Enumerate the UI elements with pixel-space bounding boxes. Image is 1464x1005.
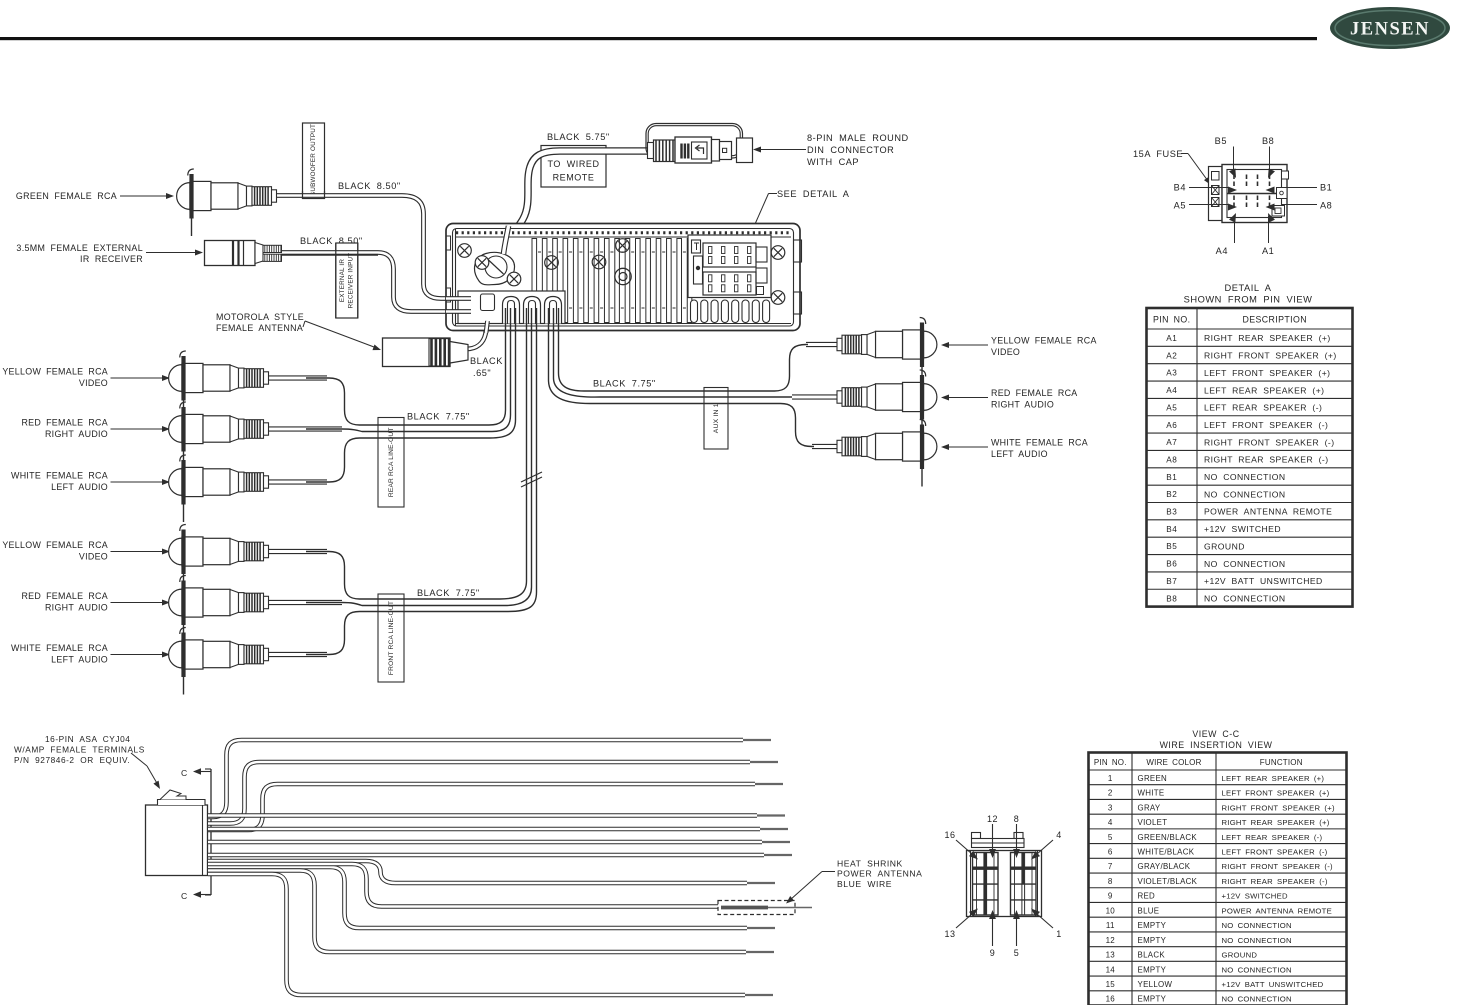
harness wire 3 (up) <box>208 784 755 830</box>
svg-text:8: 8 <box>1108 877 1113 886</box>
svg-text:WHITE FEMALE RCA: WHITE FEMALE RCA <box>11 643 108 653</box>
harness wire 12 (down) <box>208 874 745 995</box>
svg-text:LEFT FRONT SPEAKER (-): LEFT FRONT SPEAKER (-) <box>1204 420 1328 430</box>
pin arrows <box>1229 168 1236 178</box>
svg-text:NO CONNECTION: NO CONNECTION <box>1204 489 1286 499</box>
svg-text:RED: RED <box>1138 892 1156 901</box>
connector yellow female rca (video) <box>169 525 269 592</box>
leader to green RCA <box>120 195 168 197</box>
heat sink fins <box>532 239 537 323</box>
wire: remote cable inside chassis <box>504 226 509 254</box>
svg-text:3: 3 <box>1108 803 1113 812</box>
wire: antenna cable <box>466 322 487 349</box>
svg-text:2: 2 <box>1108 789 1113 798</box>
harness wire 5 <box>208 827 760 832</box>
svg-text:12: 12 <box>987 814 998 824</box>
leader to yellow female rca <box>111 377 165 379</box>
svg-text:WHITE: WHITE <box>1138 789 1165 798</box>
wire: aux red <box>792 394 838 399</box>
connector aux red female rca <box>837 370 937 437</box>
leader from aux label <box>947 446 988 448</box>
svg-text:16-PIN ASA CYJ04: 16-PIN ASA CYJ04 <box>45 734 130 744</box>
connector aux yellow female rca <box>837 318 937 385</box>
svg-text:RIGHT REAR SPEAKER (+): RIGHT REAR SPEAKER (+) <box>1222 818 1330 827</box>
svg-text:BLACK 7.75": BLACK 7.75" <box>407 412 470 422</box>
svg-text:WHITE FEMALE RCA: WHITE FEMALE RCA <box>991 438 1088 448</box>
svg-text:RED FEMALE RCA: RED FEMALE RCA <box>991 388 1078 398</box>
svg-text:LEFT FRONT SPEAKER (+): LEFT FRONT SPEAKER (+) <box>1204 368 1331 378</box>
harness wire 1 (up) <box>208 740 743 817</box>
svg-text:B5: B5 <box>1166 542 1177 551</box>
svg-text:16: 16 <box>1106 995 1116 1004</box>
svg-text:LEFT FRONT SPEAKER (+): LEFT FRONT SPEAKER (+) <box>1222 789 1330 798</box>
wire: front RCA red <box>268 600 342 605</box>
pigtail connector block <box>458 291 565 324</box>
leader to detail A connector <box>769 193 778 195</box>
leader from aux label <box>947 344 988 346</box>
svg-text:RIGHT REAR SPEAKER (-): RIGHT REAR SPEAKER (-) <box>1204 455 1329 465</box>
harness wire 10 (down) <box>208 867 747 928</box>
svg-text:+12V BATT UNSWITCHED: +12V BATT UNSWITCHED <box>1204 576 1323 586</box>
svg-text:POWER ANTENNA: POWER ANTENNA <box>837 869 922 879</box>
wire stubs into pigtail block <box>446 296 471 301</box>
svg-text:FUNCTION: FUNCTION <box>1260 758 1303 767</box>
svg-text:A1: A1 <box>1262 246 1274 256</box>
head unit cable clamp oval <box>475 252 515 284</box>
rear slot row <box>691 300 698 323</box>
connector: 8-pin male round DIN with cap strap <box>646 124 743 159</box>
wire: aux yellow <box>806 342 838 347</box>
svg-text:VIOLET: VIOLET <box>1138 818 1168 827</box>
svg-text:WIRE COLOR: WIRE COLOR <box>1146 758 1201 767</box>
wire: rear RCA red <box>268 426 342 431</box>
svg-text:BLACK 7.75": BLACK 7.75" <box>593 379 656 389</box>
svg-text:.65": .65" <box>473 368 491 378</box>
connector red female rca (right audio) <box>169 402 269 469</box>
subwoofer output tag <box>303 123 325 199</box>
svg-text:RIGHT REAR SPEAKER (-): RIGHT REAR SPEAKER (-) <box>1222 877 1328 886</box>
svg-text:7: 7 <box>1108 862 1113 871</box>
connector: Motorola style female antenna <box>383 338 451 367</box>
detail A pins <box>1233 175 1235 180</box>
svg-text:EMPTY: EMPTY <box>1138 995 1167 1004</box>
external IR receiver input tag <box>336 243 358 318</box>
svg-text:RIGHT FRONT SPEAKER (+): RIGHT FRONT SPEAKER (+) <box>1204 351 1337 361</box>
svg-text:+12V SWITCHED: +12V SWITCHED <box>1204 524 1281 534</box>
svg-text:VIOLET/BLACK: VIOLET/BLACK <box>1138 877 1198 886</box>
svg-text:4: 4 <box>1056 830 1062 840</box>
harness wire 6 <box>208 840 762 845</box>
head unit chassis <box>446 224 800 331</box>
svg-text:A5: A5 <box>1166 403 1177 412</box>
svg-text:VIDEO: VIDEO <box>79 552 108 562</box>
VIEW C-C table <box>1089 753 1347 1005</box>
svg-text:WHITE/BLACK: WHITE/BLACK <box>1138 848 1195 857</box>
detail A latch <box>1277 188 1288 199</box>
leader to white female rca <box>111 654 165 656</box>
svg-text:B3: B3 <box>1166 508 1177 517</box>
pin grid at 1010.5 <box>1011 853 1037 916</box>
leader heat shrink <box>822 871 835 873</box>
svg-text:3.5MM FEMALE EXTERNAL: 3.5MM FEMALE EXTERNAL <box>16 243 143 253</box>
svg-text:BLACK: BLACK <box>470 356 503 366</box>
connector red female rca (right audio) <box>169 576 269 643</box>
head unit right mounting ear <box>794 240 802 262</box>
connector white female rca (left audio) <box>169 628 269 695</box>
detail A upper pin grid <box>703 243 756 267</box>
svg-text:BLACK 7.75": BLACK 7.75" <box>417 588 480 598</box>
leader to 16-pin connector <box>131 753 147 766</box>
svg-text:GREEN FEMALE RCA: GREEN FEMALE RCA <box>16 191 117 201</box>
leader to yellow female rca <box>111 551 165 553</box>
connector aux white female rca <box>837 420 937 487</box>
svg-text:EMPTY: EMPTY <box>1138 921 1167 930</box>
svg-text:MOTOROLA STYLE: MOTOROLA STYLE <box>216 312 304 322</box>
svg-text:RED FEMALE RCA: RED FEMALE RCA <box>21 591 108 601</box>
svg-text:YELLOW FEMALE RCA: YELLOW FEMALE RCA <box>2 540 108 550</box>
svg-text:NO CONNECTION: NO CONNECTION <box>1204 593 1286 603</box>
svg-text:B2: B2 <box>1166 490 1177 499</box>
svg-text:+12V BATT UNSWITCHED: +12V BATT UNSWITCHED <box>1222 980 1324 989</box>
svg-text:A8: A8 <box>1320 201 1332 211</box>
svg-text:A4: A4 <box>1216 246 1228 256</box>
svg-text:RIGHT FRONT SPEAKER (+): RIGHT FRONT SPEAKER (+) <box>1222 803 1335 812</box>
wire: rear RCA yellow <box>268 375 327 380</box>
heavy pin bar <box>984 853 987 916</box>
leader to IR receiver <box>146 252 196 254</box>
svg-text:8-PIN MALE ROUND: 8-PIN MALE ROUND <box>807 133 909 143</box>
svg-text:BLACK 5.75": BLACK 5.75" <box>547 132 610 142</box>
svg-text:B6: B6 <box>1166 560 1177 569</box>
connector: green female RCA <box>177 169 277 236</box>
TO WIRED REMOTE box <box>541 146 606 188</box>
svg-text:SHOWN FROM PIN VIEW: SHOWN FROM PIN VIEW <box>1184 295 1313 305</box>
svg-text:9: 9 <box>990 948 996 958</box>
insertion view connector top tab <box>972 833 981 839</box>
svg-text:EMPTY: EMPTY <box>1138 965 1167 974</box>
wire: aux white <box>812 444 838 449</box>
rear RCA line-out tag <box>378 418 404 508</box>
harness wire 8 (down) <box>208 861 747 883</box>
svg-text:YELLOW FEMALE RCA: YELLOW FEMALE RCA <box>2 367 108 377</box>
svg-text:NO CONNECTION: NO CONNECTION <box>1204 559 1286 569</box>
svg-text:RIGHT AUDIO: RIGHT AUDIO <box>45 429 108 439</box>
svg-text:15: 15 <box>1106 980 1116 989</box>
svg-text:GROUND: GROUND <box>1222 951 1258 960</box>
svg-text:RIGHT AUDIO: RIGHT AUDIO <box>991 400 1054 410</box>
svg-text:DETAIL A: DETAIL A <box>1225 283 1272 293</box>
detail A connector body <box>1209 167 1223 221</box>
svg-text:LEFT REAR SPEAKER (-): LEFT REAR SPEAKER (-) <box>1204 403 1322 413</box>
svg-text:POWER ANTENNA REMOTE: POWER ANTENNA REMOTE <box>1222 906 1332 915</box>
svg-text:AUX IN 1: AUX IN 1 <box>713 403 720 433</box>
svg-text:8: 8 <box>1014 814 1020 824</box>
svg-text:RIGHT AUDIO: RIGHT AUDIO <box>45 603 108 613</box>
svg-text:11: 11 <box>1106 921 1115 930</box>
svg-text:LEFT AUDIO: LEFT AUDIO <box>51 482 108 492</box>
svg-text:NO CONNECTION: NO CONNECTION <box>1222 965 1292 974</box>
svg-text:NO CONNECTION: NO CONNECTION <box>1222 936 1292 945</box>
svg-text:YELLOW: YELLOW <box>1138 980 1173 989</box>
svg-text:RECEIVER INPUT: RECEIVER INPUT <box>348 253 355 309</box>
svg-text:A6: A6 <box>1166 421 1177 430</box>
svg-text:GRAY/BLACK: GRAY/BLACK <box>1138 862 1191 871</box>
svg-text:BLUE WIRE: BLUE WIRE <box>837 879 892 889</box>
svg-text:SEE DETAIL A: SEE DETAIL A <box>777 189 850 199</box>
svg-text:POWER ANTENNA REMOTE: POWER ANTENNA REMOTE <box>1204 507 1332 517</box>
harness wire 11 (down) <box>208 871 746 953</box>
svg-text:B8: B8 <box>1166 594 1177 603</box>
svg-text:YELLOW FEMALE RCA: YELLOW FEMALE RCA <box>991 336 1097 346</box>
svg-text:B4: B4 <box>1174 183 1186 193</box>
svg-text:9: 9 <box>1108 892 1113 901</box>
svg-text:A2: A2 <box>1166 351 1177 360</box>
svg-text:12: 12 <box>1106 936 1116 945</box>
svg-text:15A FUSE: 15A FUSE <box>1133 149 1183 159</box>
svg-text:RIGHT REAR SPEAKER (+): RIGHT REAR SPEAKER (+) <box>1204 333 1331 343</box>
wire: rear RCA white <box>268 479 327 484</box>
16-pin connector block <box>146 805 208 876</box>
svg-text:TO WIRED: TO WIRED <box>547 159 599 169</box>
svg-text:16: 16 <box>944 830 955 840</box>
svg-text:WHITE FEMALE RCA: WHITE FEMALE RCA <box>11 471 108 481</box>
svg-text:13: 13 <box>1106 951 1116 960</box>
svg-text:B7: B7 <box>1166 577 1177 586</box>
head unit screws <box>458 244 472 258</box>
svg-text:VIDEO: VIDEO <box>79 378 108 388</box>
connector yellow female rca (video) <box>169 351 269 418</box>
harness wire 9: heat shrink blue wire <box>208 864 718 907</box>
head unit left bracket <box>455 229 457 327</box>
svg-text:5: 5 <box>1108 833 1113 842</box>
svg-text:5: 5 <box>1014 948 1020 958</box>
svg-text:IR RECEIVER: IR RECEIVER <box>80 254 143 264</box>
svg-text:PIN NO.: PIN NO. <box>1094 758 1127 767</box>
svg-text:LEFT FRONT SPEAKER (-): LEFT FRONT SPEAKER (-) <box>1222 848 1328 857</box>
fin dashes <box>538 251 688 253</box>
svg-text:GREEN: GREEN <box>1138 774 1168 783</box>
svg-text:BLACK 8.50": BLACK 8.50" <box>338 181 401 191</box>
svg-text:DIN CONNECTOR: DIN CONNECTOR <box>807 145 894 155</box>
wire: IR receiver cable to head unit <box>281 253 460 312</box>
svg-text:EMPTY: EMPTY <box>1138 936 1167 945</box>
cable break mark <box>521 472 542 482</box>
svg-text:6: 6 <box>1108 848 1113 857</box>
svg-text:GROUND: GROUND <box>1204 541 1245 551</box>
leader to red female rca <box>111 602 165 604</box>
svg-text:A7: A7 <box>1166 438 1177 447</box>
svg-text:A4: A4 <box>1166 386 1177 395</box>
svg-text:B8: B8 <box>1262 136 1274 146</box>
wire: front RCA white <box>268 652 327 657</box>
svg-text:+12V SWITCHED: +12V SWITCHED <box>1222 892 1288 901</box>
svg-text:VIDEO: VIDEO <box>991 347 1020 357</box>
svg-text:A3: A3 <box>1166 369 1177 378</box>
svg-text:B1: B1 <box>1320 183 1332 193</box>
rear connector block (Detail A location) <box>688 235 771 298</box>
front RCA line-out tag <box>378 594 404 682</box>
svg-text:LEFT AUDIO: LEFT AUDIO <box>51 655 108 665</box>
svg-text:1: 1 <box>1108 774 1113 783</box>
pigtails <box>503 297 520 324</box>
svg-text:LEFT AUDIO: LEFT AUDIO <box>991 449 1048 459</box>
svg-text:B4: B4 <box>1166 525 1177 534</box>
leader to antenna <box>303 321 305 327</box>
svg-text:RIGHT FRONT SPEAKER (-): RIGHT FRONT SPEAKER (-) <box>1204 437 1335 447</box>
leader to DIN connector <box>759 149 806 151</box>
svg-text:A8: A8 <box>1166 455 1177 464</box>
svg-text:BLUE: BLUE <box>1138 906 1160 915</box>
svg-text:B1: B1 <box>1166 473 1177 482</box>
wire: remote cable into head unit <box>506 151 653 256</box>
svg-text:RED FEMALE RCA: RED FEMALE RCA <box>21 418 108 428</box>
leader to white female rca <box>111 481 165 483</box>
connector white female rca (left audio) <box>169 455 269 522</box>
leader to red female rca <box>111 428 165 430</box>
insertion view connector body <box>967 851 1042 917</box>
svg-text:4: 4 <box>1108 818 1113 827</box>
svg-text:PIN NO.: PIN NO. <box>1153 315 1191 325</box>
svg-text:B5: B5 <box>1215 136 1227 146</box>
svg-text:HEAT SHRINK: HEAT SHRINK <box>837 859 903 869</box>
svg-text:C: C <box>181 891 188 901</box>
svg-text:WIRE INSERTION VIEW: WIRE INSERTION VIEW <box>1160 740 1273 750</box>
wire: subwoofer cable to head unit <box>276 196 460 299</box>
harness wire 7 <box>208 853 764 858</box>
svg-text:LEFT REAR SPEAKER (+): LEFT REAR SPEAKER (+) <box>1204 385 1324 395</box>
harness wire 2 (up) <box>208 762 750 824</box>
DETAIL A table <box>1147 308 1353 607</box>
pin grid at 972.5 <box>973 853 999 916</box>
svg-text:DESCRIPTION: DESCRIPTION <box>1242 315 1307 325</box>
svg-text:NO CONNECTION: NO CONNECTION <box>1222 921 1292 930</box>
section line C-C <box>210 769 212 895</box>
svg-text:W/AMP FEMALE TERMINALS: W/AMP FEMALE TERMINALS <box>14 745 145 755</box>
svg-text:C: C <box>181 768 188 778</box>
svg-text:14: 14 <box>1106 965 1116 974</box>
svg-text:NO CONNECTION: NO CONNECTION <box>1222 995 1292 1004</box>
svg-text:LEFT REAR SPEAKER (+): LEFT REAR SPEAKER (+) <box>1222 774 1325 783</box>
JENSEN logo <box>1330 7 1450 49</box>
svg-text:GREEN/BLACK: GREEN/BLACK <box>1138 833 1198 842</box>
svg-text:BLACK: BLACK <box>1138 951 1166 960</box>
leader from aux label <box>947 397 988 399</box>
wire: front RCA yellow <box>268 549 327 554</box>
harness wire 4 <box>208 813 757 818</box>
svg-text:A5: A5 <box>1174 201 1186 211</box>
svg-text:WITH CAP: WITH CAP <box>807 157 859 167</box>
svg-text:SUBWOOFER OUTPUT: SUBWOOFER OUTPUT <box>310 124 317 196</box>
svg-text:GRAY: GRAY <box>1138 803 1161 812</box>
connector: 3.5mm female IR receiver jack <box>205 241 256 266</box>
detail A lower pin grid <box>703 272 756 295</box>
svg-text:VIEW C-C: VIEW C-C <box>1192 729 1239 739</box>
svg-text:NO CONNECTION: NO CONNECTION <box>1204 472 1286 482</box>
svg-text:A1: A1 <box>1166 334 1177 343</box>
svg-text:EXTERNAL IR: EXTERNAL IR <box>339 259 346 303</box>
header rule <box>0 37 1317 40</box>
svg-text:FEMALE ANTENNA: FEMALE ANTENNA <box>216 323 303 333</box>
aux in 1 tag <box>704 388 728 450</box>
svg-text:RIGHT FRONT SPEAKER (-): RIGHT FRONT SPEAKER (-) <box>1222 862 1334 871</box>
svg-text:10: 10 <box>1106 906 1116 915</box>
svg-text:REMOTE: REMOTE <box>553 173 595 183</box>
svg-text:P/N 927846-2 OR EQUIV.: P/N 927846-2 OR EQUIV. <box>14 755 130 765</box>
svg-text:JENSEN: JENSEN <box>1350 20 1430 40</box>
leader 15A fuse <box>1181 153 1188 155</box>
svg-text:1: 1 <box>1056 929 1062 939</box>
head unit grommet <box>615 268 631 284</box>
svg-text:13: 13 <box>944 929 955 939</box>
svg-text:LEFT REAR SPEAKER (-): LEFT REAR SPEAKER (-) <box>1222 833 1323 842</box>
